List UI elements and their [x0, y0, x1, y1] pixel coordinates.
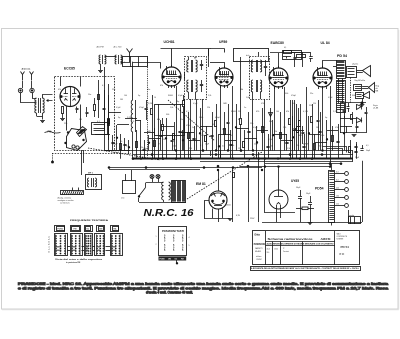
keyboard switch bank 4: [95, 234, 105, 256]
keyboard switch bank 2: [71, 234, 83, 256]
wire EABC80 diodes: [284, 87, 286, 151]
MF1 coil 2a: [187, 80, 189, 92]
wire: [327, 130, 338, 132]
posizione bottom band: [159, 256, 187, 260]
ratio detector box: [234, 49, 269, 62]
svg-text:470k: 470k: [186, 125, 190, 127]
junction: [289, 158, 291, 160]
svg-text:0,5μF: 0,5μF: [328, 97, 333, 99]
wire: [117, 124, 129, 126]
svg-text:260Ω: 260Ω: [226, 205, 231, 207]
resistor Rx3: [120, 144, 122, 150]
svg-text:220: 220: [189, 148, 192, 150]
wire: [230, 130, 232, 159]
svg-text:1n: 1n: [192, 127, 194, 129]
wire: [182, 130, 184, 151]
junction: [277, 158, 279, 160]
wire bus drop 248: [248, 168, 250, 222]
junction: [175, 158, 177, 160]
posizione tasti table: [159, 227, 187, 256]
af network box: [283, 51, 302, 60]
wire bus right drop: [362, 161, 364, 222]
capacitor Cx7: [142, 149, 145, 151]
wire: [136, 130, 138, 159]
svg-text:8p: 8p: [177, 101, 179, 103]
ferrite rod: [61, 191, 84, 195]
svg-text:OM: OM: [168, 259, 171, 261]
capacitor C14: [317, 120, 320, 122]
wire: [161, 126, 174, 128]
wire mains h2: [109, 169, 200, 171]
key button FM: [71, 226, 81, 232]
svg-text:47kpF: 47kpF: [291, 95, 296, 97]
arrow coupling: [47, 100, 53, 102]
wire: [180, 104, 182, 159]
svg-text:MF 1: MF 1: [88, 173, 94, 175]
capacitor Cx37: [318, 131, 321, 133]
svg-text:AM/FM: AM/FM: [321, 237, 331, 241]
junction: [128, 147, 130, 149]
resistor R6 uch: [183, 101, 185, 107]
svg-text:FONO: FONO: [57, 229, 63, 231]
junction: [190, 158, 192, 160]
data table header cols: [272, 242, 274, 266]
svg-text:FREQUENZE TESTIERA: FREQUENZE TESTIERA: [70, 219, 109, 222]
wire: [356, 144, 358, 159]
junction: [151, 158, 153, 160]
svg-text:68k: 68k: [341, 95, 344, 97]
resistor Rx21: [224, 129, 226, 135]
data table header line: [266, 241, 336, 243]
resistor R1: [62, 107, 64, 114]
wire EM81 top: [218, 170, 220, 191]
resistor R5: [162, 125, 164, 131]
antenna terminal A2: [30, 88, 34, 92]
IF transformer MF2 enclosure: [250, 57, 270, 100]
svg-text:4: 4: [189, 237, 190, 239]
junction: [217, 169, 219, 171]
svg-text:1,5k: 1,5k: [287, 148, 290, 150]
wire T1 to ground: [42, 113, 44, 120]
wire: [116, 125, 118, 151]
svg-text:100: 100: [276, 111, 279, 113]
data table divider right: [334, 231, 336, 265]
pilot lamp LP1: [150, 175, 154, 179]
wire gang entry: [45, 132, 61, 134]
svg-text:1M: 1M: [79, 119, 82, 121]
svg-text:POSIZIONI TASTI: POSIZIONI TASTI: [162, 230, 184, 233]
resistor Rx39: [332, 136, 334, 142]
svg-text:110: 110: [336, 204, 339, 206]
wire filter to UCH81: [147, 63, 161, 69]
diode D2: [357, 118, 362, 123]
tag strip pin 3: [335, 189, 345, 191]
wire speaker drop: [350, 78, 352, 104]
oscillator coil L3: [131, 100, 133, 132]
junction: [299, 158, 301, 160]
wire v 297b: [296, 104, 298, 159]
svg-text:Ditta: Ditta: [255, 234, 261, 237]
dial cord dashed diagonal: [88, 148, 160, 160]
svg-text:500: 500: [285, 93, 288, 95]
junction: [148, 142, 150, 144]
junction: [340, 163, 342, 165]
wire UL84 grid: [306, 100, 308, 159]
svg-text:15k: 15k: [274, 131, 277, 133]
svg-text:2,2M: 2,2M: [333, 111, 338, 113]
wire: [248, 112, 250, 151]
svg-text:PD 54: PD 54: [341, 245, 350, 249]
resistor Rx27: [262, 127, 264, 133]
svg-text:300Ω: 300Ω: [168, 95, 173, 97]
capacitor Cx1: [111, 142, 114, 144]
wire: [309, 134, 320, 136]
svg-text:in posizione FM: in posizione FM: [66, 262, 81, 264]
wire LS1 links: [357, 70, 363, 72]
wire EM81 pins: [212, 209, 214, 219]
wire: [210, 151, 212, 157]
wire: [225, 140, 236, 142]
input coil L1: [99, 55, 101, 64]
keyboard switch bank 1: [55, 234, 68, 256]
speaker LS2 cone: [369, 83, 375, 93]
resistor Rx36: [314, 144, 316, 150]
junction: [247, 165, 249, 167]
svg-text:0,1: 0,1: [284, 47, 286, 49]
tag strip pin 5: [335, 205, 345, 207]
FM dipole symbol: [127, 49, 133, 58]
svg-text:2: 2: [156, 244, 157, 246]
wire bus drop 259: [258, 152, 260, 222]
MF2 coil 2b: [260, 80, 262, 92]
svg-text:2°: 2°: [283, 248, 285, 250]
resistor R8: [240, 119, 242, 125]
junction: [256, 142, 258, 144]
junction: [292, 137, 294, 139]
junction: [215, 150, 217, 152]
wire L1 down: [100, 64, 102, 70]
voltage selector switch: [139, 188, 146, 197]
svg-text:alt. AB: alt. AB: [373, 107, 379, 110]
junction: [203, 167, 205, 169]
svg-text:47k: 47k: [160, 85, 163, 87]
junction: [162, 158, 164, 160]
wire: [244, 130, 246, 159]
svg-text:0,1μF: 0,1μF: [193, 103, 198, 105]
MF1 trimmer 2: [200, 84, 203, 86]
svg-text:1M: 1M: [120, 99, 123, 101]
svg-text:a: a: [124, 62, 125, 64]
resistor Rx9: [154, 141, 156, 147]
junction: [264, 166, 266, 168]
input transformer T1 secondary: [43, 98, 45, 113]
svg-text:Schema radioricevitore: Schema radioricevitore: [268, 237, 313, 241]
junction: [190, 158, 192, 160]
junction: [261, 169, 263, 171]
svg-text:su 550 kc/s: su 550 kc/s: [60, 203, 70, 205]
capacitor C21 electrolytic: [310, 196, 312, 202]
resistor R12: [299, 121, 301, 127]
resistor R14: [311, 117, 313, 123]
wire: [280, 112, 282, 159]
wire MF1 link: [184, 72, 186, 80]
input coil L2: [115, 55, 116, 64]
wire EABC80 cathode: [274, 87, 276, 151]
capacitor Cx16: [192, 138, 195, 140]
dashed wire AM gang: [52, 153, 131, 155]
svg-text:Antenna: Antenna: [22, 68, 32, 71]
resistor Rx18: [205, 136, 207, 142]
svg-text:5: 5: [189, 245, 190, 247]
wire af coupling: [302, 52, 304, 67]
svg-text:5,6k: 5,6k: [170, 107, 173, 109]
junction: [108, 167, 110, 169]
wire: [344, 116, 346, 151]
svg-text:cambio: cambio: [349, 215, 354, 217]
bus end caps cluster: [354, 146, 357, 148]
svg-text:1500: 1500: [274, 249, 278, 251]
input transformer T1 primary: [35, 98, 37, 113]
wire bus 1: [200, 150, 353, 152]
wire: [320, 112, 322, 151]
resistor Rx6: [136, 142, 138, 148]
dial cord dashed 3: [168, 100, 215, 141]
tag strip pin 4: [335, 197, 345, 199]
svg-text:47: 47: [158, 144, 160, 146]
wire UY85 plate: [278, 167, 280, 190]
capacitor Cx28: [266, 146, 269, 148]
svg-text:500: 500: [352, 95, 355, 97]
wire: [332, 126, 334, 151]
wire T1 secondary top: [43, 95, 53, 99]
IF transformer MF1 enclosure: [185, 57, 207, 100]
page shadow right: [398, 30, 400, 310]
junction: [329, 166, 331, 168]
mains plug: [123, 181, 136, 194]
wire: [244, 138, 257, 140]
svg-text:220: 220: [112, 89, 115, 91]
svg-text:47kpF: 47kpF: [215, 117, 220, 119]
wire: [298, 108, 300, 151]
extra top wires: [208, 49, 210, 57]
junction: [232, 167, 234, 169]
wire: [188, 112, 190, 159]
svg-text:5p: 5p: [325, 117, 327, 119]
tube UL84 V5: [313, 68, 332, 87]
oscillator shield box: [155, 105, 185, 136]
svg-text:220: 220: [309, 105, 312, 107]
MF1 coil core 1: [191, 60, 193, 72]
keyboard switch bank 3: [85, 234, 93, 256]
junction: [240, 150, 242, 152]
svg-text:300Ω: 300Ω: [231, 111, 236, 113]
data table divider left: [265, 231, 267, 265]
wire bus heavy: [133, 158, 353, 160]
svg-text:25μ: 25μ: [250, 123, 253, 125]
junction: [182, 140, 184, 142]
power transformer T3 winding: [162, 182, 164, 200]
trimmer block: [92, 123, 108, 135]
svg-text:220: 220: [64, 123, 67, 125]
wire: [206, 126, 208, 151]
capacitor Cx19: [210, 135, 213, 137]
speaker LS3 box: [356, 93, 364, 99]
band filter box: [123, 57, 148, 67]
capacitor C2: [86, 112, 89, 114]
wire detector h3: [340, 132, 366, 134]
svg-text:0,1μF: 0,1μF: [116, 107, 121, 109]
wire: [189, 140, 200, 142]
MF2 coil core 2: [256, 80, 258, 92]
wire mains h1: [109, 167, 262, 169]
svg-text:di ch: di ch: [246, 55, 250, 57]
volume pot: [270, 108, 272, 151]
wire: [212, 112, 214, 159]
wire: [304, 134, 306, 159]
wire: [268, 134, 270, 159]
bus nested corner 2: [327, 149, 343, 155]
wire terminal A2 down: [33, 93, 37, 99]
wire lamps: [152, 179, 154, 183]
wire: [257, 130, 268, 132]
wire L3 bottom: [132, 132, 134, 159]
svg-text:250: 250: [313, 103, 316, 105]
wire: [208, 62, 210, 67]
antenna symbol 1: [21, 72, 25, 81]
wire UL84 cathode: [322, 87, 324, 120]
wire: [120, 134, 122, 159]
MF2 trimmer: [264, 66, 267, 68]
wire: [273, 134, 287, 136]
detector extra caps: [343, 110, 346, 112]
speaker LS1 box: [347, 67, 357, 78]
wire tag strip bottom: [331, 222, 333, 226]
wire tube to gang left: [66, 107, 68, 131]
junction: [343, 133, 345, 135]
junction: [329, 163, 331, 165]
svg-text:12k: 12k: [207, 107, 210, 109]
svg-text:PD 54: PD 54: [337, 54, 347, 58]
wire: [218, 134, 220, 159]
svg-text:220V: 220V: [250, 218, 255, 220]
resistor R16: [351, 115, 353, 120]
wire UCH81 cathode: [158, 112, 160, 159]
MF2 coil 2a: [251, 80, 253, 92]
wire MF1 down: [190, 99, 192, 159]
capacitor Cx13: [178, 131, 181, 133]
resistor R2: [94, 105, 96, 111]
svg-text:6,3: 6,3: [336, 180, 339, 182]
svg-text:250: 250: [162, 139, 165, 141]
tag strip PD54: [329, 171, 335, 223]
junction: [311, 158, 313, 160]
FM box interior wires: [98, 80, 100, 118]
wire: [144, 132, 155, 134]
wire psu h: [265, 212, 295, 214]
wire: [180, 132, 194, 134]
wire: [112, 135, 114, 151]
junction: [199, 133, 201, 135]
wire: [262, 108, 264, 151]
wire: [308, 116, 310, 151]
key button FONO: [55, 226, 65, 232]
wire bus 3: [200, 161, 353, 163]
wire: [144, 140, 146, 159]
tag strip pin 1: [335, 173, 345, 175]
wire: [200, 108, 202, 159]
speaker LS2 box: [354, 85, 362, 91]
wire bus left join: [104, 67, 106, 151]
wire R1 down: [62, 114, 64, 119]
junction: [145, 167, 147, 169]
capacitor C17: [365, 112, 368, 114]
resistor R10: [284, 51, 292, 54]
wire T2 secondary: [338, 78, 340, 103]
junction: [322, 150, 324, 152]
capacitor C1: [76, 108, 79, 110]
wire EM81 left: [205, 201, 209, 219]
wire: [208, 49, 210, 63]
junction: [308, 133, 310, 135]
svg-text:UL 84: UL 84: [321, 41, 330, 45]
resistor Rx15: [188, 133, 190, 139]
wire: [194, 126, 196, 151]
wire: [219, 134, 231, 136]
svg-text:d1: d1: [48, 252, 50, 254]
tuning gang: [67, 129, 87, 151]
svg-text:8p: 8p: [238, 119, 240, 121]
wire terminal A1 down: [21, 93, 37, 103]
capacitor Cx22: [229, 144, 232, 146]
svg-text:FONO: FONO: [160, 259, 166, 261]
svg-text:0,1: 0,1: [366, 145, 369, 147]
wire: [166, 118, 168, 159]
junction: [240, 150, 242, 152]
wire: [236, 128, 249, 130]
svg-text:22n: 22n: [310, 93, 313, 95]
svg-text:1234567: 1234567: [256, 259, 262, 261]
wire UF89 screen: [232, 100, 234, 159]
capacitor C4: [145, 108, 148, 110]
psu terminal block: [349, 217, 361, 224]
capacitor Cx10: [159, 135, 162, 137]
svg-text:68k: 68k: [240, 89, 243, 91]
resistor Rx33: [297, 127, 299, 133]
svg-text:PD54: PD54: [315, 187, 324, 191]
svg-text:1M: 1M: [316, 127, 319, 129]
wire EABC80 top: [278, 53, 280, 68]
svg-text:6,3: 6,3: [336, 172, 339, 174]
junction: [289, 154, 291, 156]
capacitor Cx4: [123, 144, 126, 146]
svg-text:0,5μF: 0,5μF: [178, 95, 183, 97]
junction: [252, 150, 254, 152]
wire LS2 links: [362, 86, 368, 88]
junction: [132, 158, 134, 160]
wire bus 5: [240, 166, 330, 168]
capacitor Cx25: [247, 131, 250, 133]
wire: [350, 140, 352, 159]
tube EM81 V6: [209, 191, 227, 209]
EABC80 pot detail: [283, 56, 291, 58]
wire gang down: [81, 150, 83, 175]
svg-text:A RICHIESTA DELLA DITTA PRANDO: A RICHIESTA DELLA DITTA PRANDONI DARE' L…: [251, 267, 360, 270]
wire coil L1 L2 join: [105, 56, 117, 58]
junction: [299, 158, 301, 160]
svg-text:10n: 10n: [88, 94, 91, 96]
svg-text:N.R.C. 16: N.R.C. 16: [144, 208, 194, 219]
junction: [227, 150, 229, 152]
